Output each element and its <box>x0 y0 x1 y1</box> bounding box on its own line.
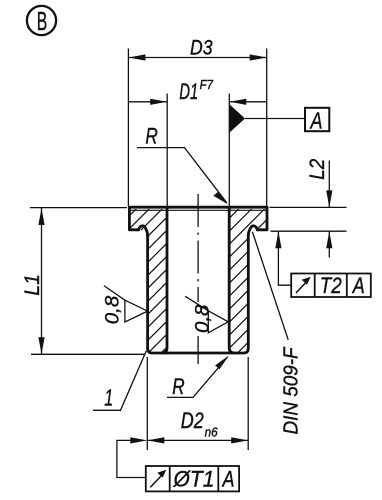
runout symbol <box>150 475 162 487</box>
T1 leader <box>117 440 146 477</box>
relief groove left (DIN 509-F) <box>139 226 148 235</box>
svg-text:L1: L1 <box>20 274 44 296</box>
D1 arrows <box>150 99 167 105</box>
L2 extension line top <box>270 206 347 208</box>
datum box A <box>305 108 329 134</box>
D2 arrows <box>147 437 164 443</box>
L1 dimension line <box>41 208 43 354</box>
relief groove right (DIN 509-F) <box>248 226 257 235</box>
D3 extension line left <box>127 49 129 207</box>
L2 arrows <box>326 190 332 207</box>
feature control frame T1 <box>146 466 239 491</box>
R bottom leader arrow <box>215 356 229 370</box>
svg-text:0,8: 0,8 <box>192 304 214 333</box>
runout symbol <box>296 282 307 293</box>
R bottom leader <box>167 357 228 398</box>
svg-text:D2: D2 <box>181 408 204 433</box>
flange top chamfer edge line <box>130 209 266 211</box>
svg-text:D1: D1 <box>179 79 198 104</box>
body outer left + bottom + body outer right <box>148 235 249 353</box>
L2 extension line bottom <box>271 230 347 232</box>
view label B <box>27 6 56 36</box>
svg-text:ØT1: ØT1 <box>173 466 215 491</box>
bore left edge <box>162 208 167 353</box>
bore right edge <box>229 208 234 353</box>
D2 extension line right <box>247 357 249 450</box>
D1 extension line right <box>228 94 230 207</box>
D3 arrows <box>128 54 145 60</box>
svg-text:L2: L2 <box>305 159 329 180</box>
svg-text:A: A <box>351 273 365 298</box>
hatching right wall <box>93 205 382 355</box>
D3 dimension line <box>128 57 266 59</box>
svg-text:D3: D3 <box>190 36 213 60</box>
R top leader arrow <box>213 192 228 204</box>
T1 leader arrow <box>130 437 147 443</box>
thin lines <box>30 49 347 478</box>
white gap under bore roughness text <box>193 302 210 336</box>
svg-text:1: 1 <box>104 385 113 411</box>
svg-text:R: R <box>172 374 184 399</box>
flange right edge <box>257 207 267 229</box>
part outline <box>129 207 267 353</box>
datum triangle A <box>229 104 245 132</box>
arrowheads <box>38 54 332 443</box>
feature control frame T2 <box>291 273 371 298</box>
DIN 509-F leader <box>252 232 288 340</box>
D1 extension line left <box>166 94 168 207</box>
datum leader <box>245 118 305 120</box>
centerline <box>197 194 199 364</box>
svg-text:F7: F7 <box>200 78 214 92</box>
hatching left wall <box>0 205 309 355</box>
R top leader <box>137 148 227 203</box>
T2 leader <box>278 231 291 285</box>
svg-text:R: R <box>145 124 157 149</box>
L1 extension line bottom <box>31 353 145 355</box>
T2 leader arrow <box>275 231 281 248</box>
svg-text:DIN 509-F: DIN 509-F <box>281 346 303 435</box>
flange left edge <box>129 207 138 229</box>
roughness symbol bore <box>185 296 228 333</box>
D2 extension line left <box>146 357 148 450</box>
flange top <box>129 206 267 209</box>
leader of note 1 <box>93 351 146 411</box>
roughness symbol left wall <box>104 286 148 322</box>
svg-text:A: A <box>221 466 235 491</box>
svg-text:B: B <box>37 8 48 36</box>
L1 extension line top <box>30 207 127 209</box>
L1 arrows <box>38 208 44 225</box>
D1 dimension line tails <box>128 101 167 103</box>
L2 dimension tails <box>328 161 330 208</box>
svg-text:0,8: 0,8 <box>102 296 124 325</box>
svg-text:A: A <box>309 108 323 134</box>
svg-text:n6: n6 <box>205 426 218 440</box>
D3 extension line right <box>266 49 268 207</box>
D2 dimension line <box>147 439 248 441</box>
svg-text:T2: T2 <box>320 273 342 298</box>
